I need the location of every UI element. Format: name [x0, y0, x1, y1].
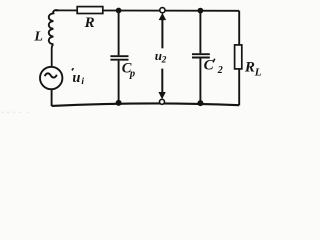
svg-text:i: i: [81, 77, 84, 87]
svg-text:2: 2: [161, 56, 167, 66]
svg-text:p: p: [129, 69, 135, 80]
capacitor C'2: [192, 54, 210, 57]
svg-text:R: R: [84, 15, 95, 31]
wire Cp lower: [118, 61, 120, 104]
wire C'2 upper: [199, 11, 201, 54]
junction bottom-left: [116, 100, 122, 106]
wire top horizontal: [56, 9, 239, 11]
junction top-right: [198, 8, 204, 14]
wire coil-to-source vertical: [52, 44, 54, 67]
wire u2 upper segment: [161, 20, 163, 49]
arrow down (u2): [158, 92, 165, 99]
node terminal top (u2): [160, 8, 165, 13]
svg-text:L: L: [33, 30, 43, 45]
wire right vertical: [238, 11, 240, 105]
wire u2 lower segment: [161, 69, 163, 93]
faint scan marks bottom-left: [1, 112, 30, 114]
source u_i: [40, 67, 62, 89]
resistor R: [77, 7, 103, 14]
inductor L: [49, 10, 59, 44]
junction bottom-right: [197, 100, 203, 106]
node terminal bottom (u2): [160, 99, 165, 104]
svg-text:R: R: [244, 59, 255, 75]
wire Cp upper: [118, 11, 120, 56]
junction top-left: [116, 8, 122, 14]
svg-text:L: L: [254, 66, 262, 78]
label u2: [155, 48, 167, 66]
label RL: [244, 59, 262, 78]
label u_i (phasor dot): [72, 68, 85, 87]
resistor RL: [235, 45, 242, 69]
svg-text:C: C: [204, 57, 215, 73]
wire left vertical source-to-bottom: [51, 89, 53, 106]
label C'2: [204, 57, 223, 76]
arrow up (u2): [159, 13, 166, 20]
label Cp: [122, 61, 135, 80]
wire C'2 lower: [199, 58, 201, 103]
svg-text:2: 2: [217, 65, 223, 76]
capacitor Cp: [110, 56, 128, 60]
svg-text:u: u: [72, 70, 80, 86]
wire bottom horizontal: [52, 103, 240, 105]
